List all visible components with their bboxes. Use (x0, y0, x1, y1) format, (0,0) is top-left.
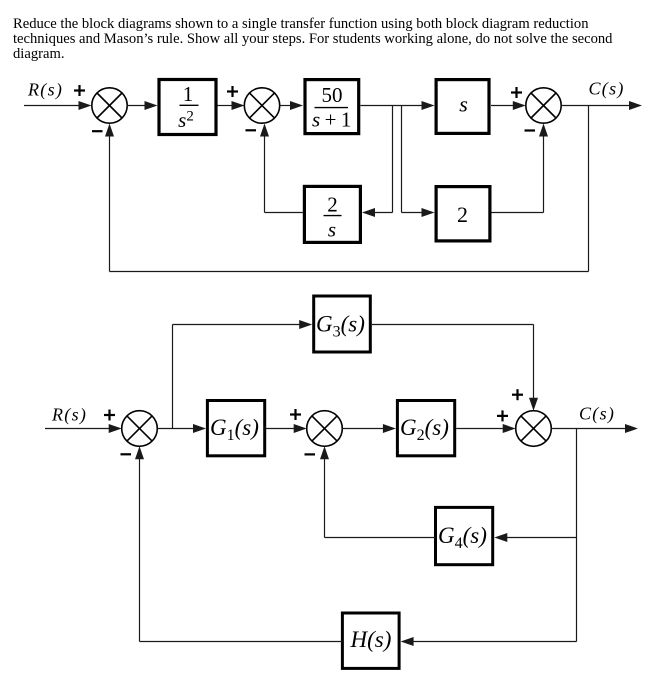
node C(s) label (diagram 2) (579, 404, 615, 425)
svg-text:s: s (328, 218, 336, 242)
block 50/(s+1) (305, 80, 359, 134)
wire output C(s) (561, 101, 642, 110)
wire block 50/(s+1) to block s (361, 101, 435, 110)
svg-text:H(s): H(s) (350, 627, 392, 652)
wire pickoff vertical to 2 (402, 106, 435, 218)
wire output C(s) diagram 2 (551, 424, 638, 433)
block 2 (436, 187, 490, 241)
wire input R(s) to summer S1 (24, 101, 92, 110)
problem statement text (13, 17, 612, 63)
summing junction S4 (122, 411, 158, 447)
wire branch to block H (401, 637, 577, 646)
wire branch to block G4 (494, 533, 576, 542)
svg-text:2: 2 (457, 202, 468, 227)
svg-text:C(s): C(s) (589, 79, 625, 100)
wire G2 to summer S6 (456, 424, 516, 433)
wire G3 output to summer S6 (372, 325, 538, 411)
minus sign below S2 (246, 129, 257, 131)
svg-text:R(s): R(s) (27, 80, 63, 101)
node R(s) label (diagram 2) (51, 405, 87, 426)
wire pickoff vertical to 2/s (362, 106, 393, 218)
svg-text:G1(s): G1(s) (210, 415, 259, 444)
block G2 (397, 401, 454, 456)
block 1/s^2 (159, 80, 216, 135)
svg-text:50: 50 (322, 83, 343, 107)
wire pickoff down from output (576, 429, 578, 642)
block s (436, 80, 489, 134)
block G4 (436, 507, 493, 564)
svg-text:1: 1 (183, 82, 194, 106)
summing junction S2 (244, 88, 279, 123)
minus sign below-left of S3 (525, 129, 536, 131)
plus sign at S2 input (227, 86, 238, 97)
plus sign at S1 input (74, 85, 85, 96)
plus sign at S3 input (511, 87, 522, 98)
wire block s to summer S3 (491, 101, 526, 110)
minus sign below S5 (305, 453, 316, 455)
node R(s) label (diagram 1) (27, 80, 63, 101)
block H (342, 613, 399, 668)
wire S5 to block G2 (342, 424, 396, 433)
svg-text:R(s): R(s) (51, 405, 87, 426)
block 2/s (304, 186, 360, 242)
wire S1 to block 1/s^2 (127, 101, 158, 110)
wire G4 output to summer S5 (320, 446, 436, 537)
plus sign above S6 (512, 389, 523, 400)
block G3 (314, 296, 371, 352)
wire S4 to block G1 (157, 424, 206, 433)
svg-text:s: s (459, 92, 468, 117)
svg-text:G3(s): G3(s) (316, 312, 365, 341)
block G1 (207, 401, 264, 456)
svg-text:s + 1: s + 1 (312, 108, 351, 132)
summing junction S5 (307, 411, 343, 447)
summing junction S6 (516, 411, 552, 447)
wire pickoff up to block G3 (173, 320, 313, 429)
svg-text:2: 2 (327, 192, 338, 216)
wire outer feedback to S1 (105, 106, 589, 272)
summing junction S3 (526, 88, 561, 123)
node C(s) label (diagram 1) (589, 79, 625, 100)
plus sign at S4 input (104, 410, 115, 421)
wire block 1/s^2 to summer S2 (218, 101, 245, 110)
minus sign below S4 (121, 453, 132, 455)
wire block 2 output to summer S3 (492, 124, 549, 213)
svg-text:G2(s): G2(s) (400, 415, 449, 444)
wire 2/s output to summer S2 (260, 124, 303, 213)
wire input R(s) to summer S4 (45, 424, 122, 433)
wire G1 to summer S5 (265, 424, 307, 433)
wire H output to summer S4 (135, 446, 342, 641)
plus sign at S6 left input (497, 410, 508, 421)
plus sign at S5 input (290, 409, 301, 420)
svg-text:C(s): C(s) (579, 404, 615, 425)
minus sign below S1 (92, 130, 103, 132)
svg-text:G4(s): G4(s) (438, 523, 487, 552)
wire S2 to block 50/(s+1) (280, 101, 304, 110)
summing junction S1 (92, 88, 127, 123)
